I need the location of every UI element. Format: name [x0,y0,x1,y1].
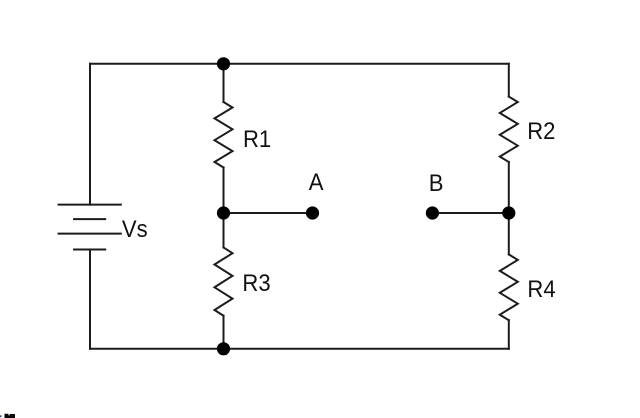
svg-text:B: B [429,169,444,196]
svg-text:A: A [309,168,324,195]
wire left lower [89,250,91,349]
wire R3 top lead [223,213,225,248]
wire R1 top lead [223,64,225,102]
wire R1 bottom lead [223,168,225,214]
node B terminal [426,206,439,219]
wire top [90,63,509,65]
svg-text:R1: R1 [243,125,271,152]
wire R2 top lead [508,64,510,97]
node bottom junction [217,342,230,355]
node top junction [217,57,230,70]
wire R4 bottom lead [508,320,510,349]
svg-text:R2: R2 [527,117,555,144]
node junction B side [502,206,515,219]
wire B to node [432,212,508,214]
resistor R2 [500,97,518,162]
wire R4 top lead [508,213,510,254]
wire bottom [90,348,509,350]
wire R3 bottom lead [223,316,225,349]
wire node to A [224,212,313,214]
svg-text:R3: R3 [242,269,270,296]
resistor R4 [500,254,518,320]
battery Vs [59,205,121,250]
node junction A side [217,206,230,219]
node A terminal [306,206,319,219]
svg-text:R4: R4 [527,275,555,302]
resistor R3 [215,248,233,316]
artifact cut-off text bottom-left [5,414,16,418]
wire left upper [89,64,91,205]
resistor R1 [215,102,233,168]
artifact tan pixel [8,414,10,415]
artifact blue mark [0,415,1,417]
svg-text:Vs: Vs [122,215,148,242]
wire R2 bottom lead [508,162,510,213]
